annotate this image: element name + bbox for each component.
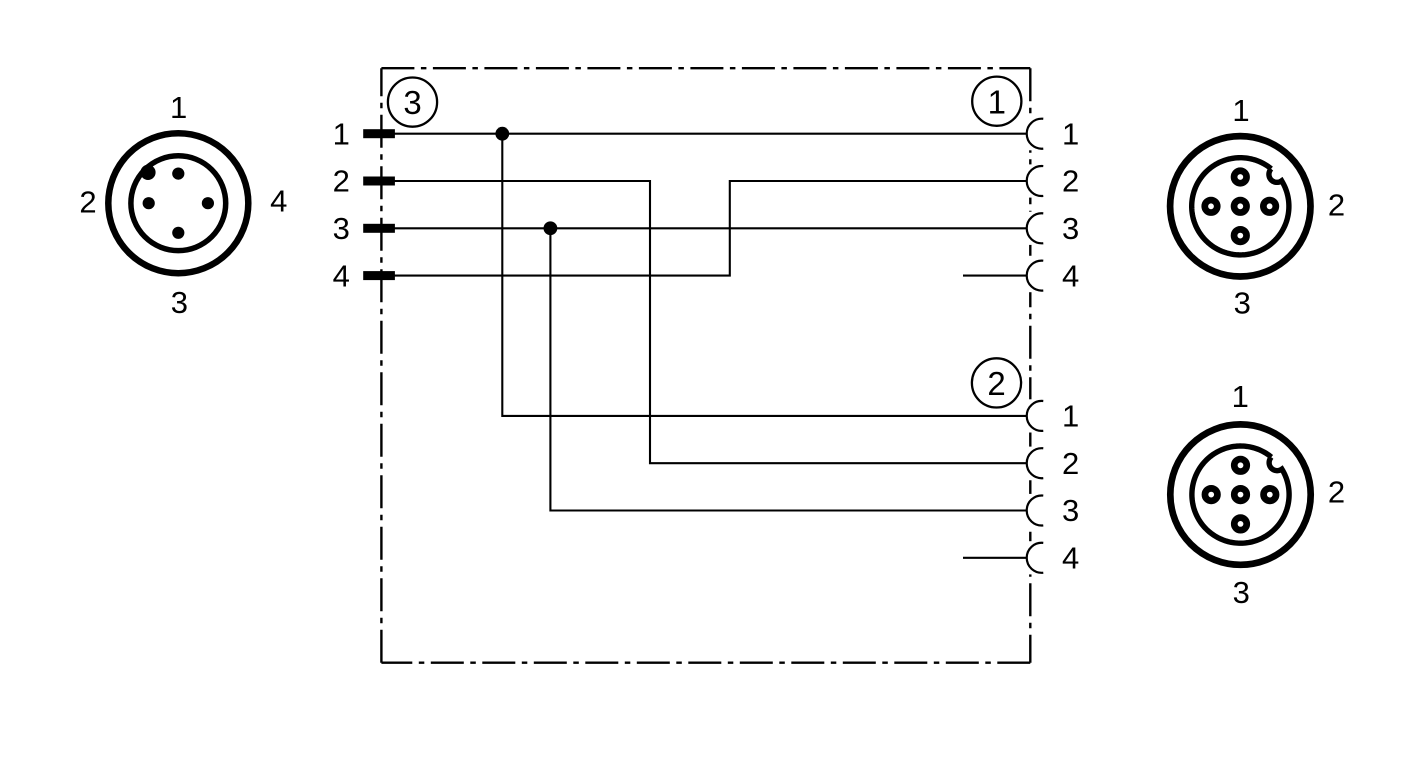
connector 2 (female) face view: outer shell xyxy=(1170,424,1310,564)
wire: wire-1 junction to end-2 pin 1 xyxy=(502,134,1026,416)
cable assembly boundary (dash-dot box) xyxy=(381,68,1030,663)
svg-text:1: 1 xyxy=(1062,116,1079,151)
end identifier 3 (circled) xyxy=(388,78,437,127)
connector 2 pin center socket hole xyxy=(1234,488,1247,501)
junction on wire 1 xyxy=(495,127,509,141)
svg-text:3: 3 xyxy=(1234,285,1251,320)
wire: end-3 pin 1 to end-1 pin 1 xyxy=(380,133,1027,135)
terminal stub end-3 pin 1 xyxy=(363,129,395,138)
connector 3 pin 4 contact xyxy=(202,197,214,209)
svg-text:2: 2 xyxy=(1062,446,1079,481)
svg-text:3: 3 xyxy=(333,211,350,246)
svg-text:1: 1 xyxy=(1232,379,1249,414)
connector 1 pin 1 socket hole xyxy=(1234,171,1247,184)
svg-text:3: 3 xyxy=(1233,575,1250,610)
end identifier 2 (circled) xyxy=(972,358,1021,407)
connector 2 face view: insert circle with keyway notch xyxy=(1192,446,1289,543)
svg-text:4: 4 xyxy=(333,258,350,293)
wire: end-3 pin 4 to end-1 pin 2 xyxy=(380,181,1027,276)
connector 1 face view: insert circle with keyway notch xyxy=(1192,158,1289,255)
stub wire: end-1 pin 4 xyxy=(963,275,1027,277)
svg-text:2: 2 xyxy=(79,184,96,219)
svg-text:2: 2 xyxy=(987,365,1005,402)
svg-text:4: 4 xyxy=(1062,258,1079,293)
connector 3 keying nib xyxy=(140,165,155,180)
connector 3 (male) face view: outer shell xyxy=(108,133,248,273)
svg-text:3: 3 xyxy=(1062,493,1079,528)
svg-text:1: 1 xyxy=(333,116,350,151)
socket contact end-1 pin 2 xyxy=(1027,164,1044,197)
connector 1 pin center socket hole xyxy=(1234,200,1247,213)
svg-text:2: 2 xyxy=(1328,474,1345,509)
connector 1 pin 4 socket hole xyxy=(1205,200,1218,213)
svg-text:1: 1 xyxy=(170,90,187,125)
connector 2 pin 3 socket hole xyxy=(1234,518,1247,531)
svg-text:2: 2 xyxy=(1062,164,1079,199)
connector 1 (female) face view: outer shell xyxy=(1170,136,1310,276)
terminal stub end-3 pin 4 xyxy=(363,271,395,280)
terminal stub end-3 pin 2 xyxy=(363,177,395,186)
svg-text:4: 4 xyxy=(1062,540,1079,575)
svg-text:4: 4 xyxy=(270,184,287,219)
wire: end-3 pin 3 to end-1 pin 3 xyxy=(380,227,1027,229)
socket contact end-2 pin 4 xyxy=(1027,541,1044,574)
svg-text:3: 3 xyxy=(403,84,421,121)
socket contact end-2 pin 1 xyxy=(1027,399,1044,432)
end identifier 1 (circled) xyxy=(972,77,1021,126)
connector 2 pin 4 socket hole xyxy=(1205,488,1218,501)
svg-text:1: 1 xyxy=(1232,93,1249,128)
socket contact end-1 pin 4 xyxy=(1027,259,1044,292)
connector 1 pin 3 socket hole xyxy=(1234,229,1247,242)
terminal stub end-3 pin 3 xyxy=(363,224,395,233)
connector 2 pin 1 socket hole xyxy=(1234,459,1247,472)
connector 3 pin 1 contact xyxy=(172,168,184,180)
socket contact end-2 pin 3 xyxy=(1027,494,1044,527)
svg-text:3: 3 xyxy=(1062,211,1079,246)
connector 2 pin 2 socket hole xyxy=(1264,488,1277,501)
junction on wire 3 xyxy=(544,221,558,235)
socket contact end-1 pin 1 xyxy=(1027,117,1044,150)
connector 3 pin 2 contact xyxy=(143,197,155,209)
wire: wire-3 junction to end-2 pin 3 xyxy=(550,228,1026,510)
socket contact end-2 pin 2 xyxy=(1027,447,1044,480)
connector 3 face view: insert circle xyxy=(131,156,226,251)
connector 1 pin 2 socket hole xyxy=(1263,200,1276,213)
stub wire: end-2 pin 4 xyxy=(963,557,1027,559)
connector 3 pin 3 contact xyxy=(172,227,184,239)
socket contact end-1 pin 3 xyxy=(1027,212,1044,245)
svg-text:1: 1 xyxy=(988,83,1006,120)
svg-text:1: 1 xyxy=(1062,399,1079,434)
svg-text:2: 2 xyxy=(1328,188,1345,223)
svg-text:2: 2 xyxy=(333,164,350,199)
wire: end-3 pin 2 to end-2 pin 2 xyxy=(380,181,1027,463)
svg-text:3: 3 xyxy=(171,285,188,320)
